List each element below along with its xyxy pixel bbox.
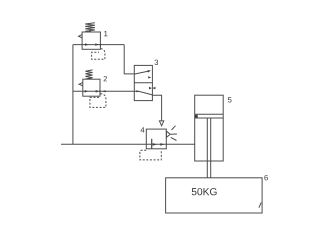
wire valve 3 output down to valve 4 <box>152 95 161 121</box>
bottom cell port marks valve 3 <box>149 87 155 90</box>
cylinder 5 <box>195 95 224 178</box>
wire supply vertical <box>72 45 74 145</box>
inner bar valve 4 <box>151 139 153 149</box>
wire flow line to valve 1 <box>73 44 124 46</box>
label 6 <box>264 175 268 180</box>
wire from valve 1 down to valve 3 <box>124 45 134 74</box>
vent arrow valve 2 <box>79 83 83 86</box>
label 50KG <box>192 188 217 195</box>
piston <box>195 114 224 118</box>
control valve 4 <box>140 121 177 160</box>
junction valve 1 outlet <box>100 44 102 46</box>
vent arrow valve 1 <box>79 35 82 38</box>
label 3 <box>154 60 158 65</box>
spring of valve 1 <box>85 23 95 31</box>
flow arrows valve 2 <box>85 90 99 93</box>
exhaust triangle valve 4 <box>166 131 170 137</box>
drain dashed valve 4 <box>140 150 161 160</box>
pilot arrow above valve 4 <box>159 121 163 126</box>
exhaust rays valve 4 <box>171 126 177 141</box>
label 4 <box>141 127 145 132</box>
back arrow valve 2 <box>102 90 106 92</box>
wire flow line to valve 2 and valve 3 <box>73 90 134 92</box>
wire bottom supply to valve 4 and cylinder <box>61 143 195 145</box>
spring seat valve 1 <box>88 30 91 32</box>
flow arrows valve 1 <box>85 43 99 46</box>
label 1 <box>104 31 107 36</box>
label 2 <box>104 76 107 81</box>
bottom cell flow path valve 3 <box>134 91 152 95</box>
pilot drain dashed valve 1 <box>92 49 105 60</box>
pressure reducing valve 1 <box>79 23 105 60</box>
pilot drain dashed valve 2 <box>90 94 106 108</box>
top cell port mark valve 3 <box>148 76 151 78</box>
flow arrows valve 4 <box>153 143 165 146</box>
spring of valve 2 <box>85 70 92 79</box>
tick mark in load box <box>259 203 261 208</box>
divider valve 3 <box>134 82 152 84</box>
top cell flow path valve 3 <box>134 71 148 74</box>
piston rod <box>207 118 210 178</box>
directional valve 3 <box>134 65 155 100</box>
label 5 <box>228 97 232 102</box>
junction valve 2 outlet <box>99 90 101 92</box>
spring seat valve 2 <box>88 78 91 79</box>
load box 6 <box>166 178 263 213</box>
pressure reducing valve 2 <box>79 70 106 108</box>
